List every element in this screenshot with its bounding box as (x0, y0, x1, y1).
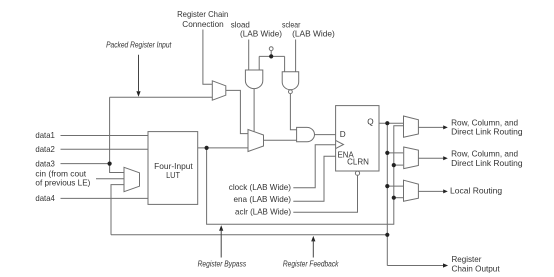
arrowhead mux3 output (443, 189, 448, 193)
arrow line register feedback (312, 240, 314, 258)
svg-text:cin (from cout: cin (from cout (35, 169, 86, 178)
four-input LUT box (148, 132, 198, 205)
wire mux3 output (418, 190, 443, 192)
arrowhead packed register input (136, 91, 140, 97)
node mux2 top junction (385, 151, 389, 155)
node data3 junction (108, 162, 112, 166)
svg-text:Register Chain: Register Chain (177, 10, 229, 19)
mux right 2 (404, 147, 419, 169)
mux right 1 (404, 116, 419, 137)
svg-text:sclear: sclear (282, 21, 301, 30)
wire data1 (61, 135, 149, 137)
svg-text:data1: data1 (35, 131, 55, 140)
nand gate sclear (282, 72, 299, 90)
arrow line packed register input (138, 55, 140, 92)
wire Q output (379, 122, 403, 124)
svg-text:CLRN: CLRN (347, 158, 369, 167)
node mux3 top junction (385, 184, 389, 188)
wire aclr (293, 175, 357, 212)
D flip-flop box (336, 106, 379, 171)
wire sclear label drop (295, 40, 297, 72)
wire node horizontal (259, 55, 284, 57)
svg-text:aclr (LAB Wide): aclr (LAB Wide) (235, 207, 291, 216)
wire sclear gate output (290, 94, 296, 130)
node open circle (269, 47, 273, 51)
svg-text:Four-Input: Four-Input (154, 162, 193, 171)
arrow line register bypass (220, 230, 222, 258)
svg-text:sload: sload (231, 21, 250, 30)
svg-text:Connection: Connection (182, 20, 224, 29)
wire data4 (61, 197, 149, 199)
node sload/sclear (269, 54, 273, 58)
wire sload gate output (253, 89, 255, 132)
wire mux1 output (418, 126, 443, 128)
svg-text:Row, Column, and: Row, Column, and (451, 118, 518, 127)
wire register feedback left vertical (111, 185, 124, 235)
mux M3 synchronous load (248, 130, 264, 152)
svg-text:D: D (340, 130, 346, 139)
arrowhead register chain output (443, 263, 448, 267)
wire node stub (270, 51, 272, 57)
mux M2 register chain connection (212, 81, 226, 100)
svg-text:data3: data3 (35, 159, 55, 168)
node Q line junction (385, 121, 389, 125)
svg-text:Register Bypass: Register Bypass (198, 259, 247, 268)
mux M1 cin/data3/feedback (124, 167, 140, 191)
arrowhead register feedback (311, 236, 315, 242)
wire node to sclear gate (284, 56, 286, 71)
svg-text:ena (LAB Wide): ena (LAB Wide) (234, 195, 292, 204)
svg-text:Register: Register (452, 255, 482, 264)
wire register bypass (207, 126, 404, 224)
svg-text:LUT: LUT (166, 171, 180, 180)
svg-text:(LAB Wide): (LAB Wide) (240, 30, 282, 39)
wire data2 (61, 148, 149, 150)
wire clock (293, 145, 335, 188)
wire mux2 bottom input (394, 164, 403, 166)
svg-text:Local Routing: Local Routing (450, 187, 503, 196)
svg-text:Direct Link Routing: Direct Link Routing (451, 159, 523, 168)
wire register chain mux output (226, 90, 248, 133)
wire mux3 top input (387, 185, 403, 187)
wire mux3 bottom input (394, 197, 403, 199)
svg-text:(LAB Wide): (LAB Wide) (292, 30, 335, 39)
svg-text:Register Feedback: Register Feedback (283, 259, 339, 268)
svg-text:data2: data2 (35, 145, 55, 154)
wire lut output (198, 147, 248, 149)
svg-text:Chain Output: Chain Output (452, 265, 501, 274)
node bypass mux3 junction (392, 196, 396, 200)
wire register feedback bottom horizontal (111, 234, 387, 236)
arrowhead register bypass (219, 225, 223, 231)
wire sload label drop (248, 40, 250, 71)
wire packed register input top horizontal (110, 96, 213, 98)
svg-text:Direct Link Routing: Direct Link Routing (451, 127, 523, 136)
clock triangle (336, 140, 344, 148)
wire data3 (61, 163, 110, 165)
wire Q vertical (386, 123, 388, 265)
wire sync mux output (264, 139, 297, 141)
svg-text:data4: data4 (35, 194, 55, 203)
CLRN bubble (355, 171, 359, 175)
svg-text:Packed Register Input: Packed Register Input (106, 40, 172, 49)
and gate before D (297, 127, 315, 141)
wire register chain output (387, 265, 443, 267)
nand gate sclear bubble (289, 90, 293, 94)
wire mux2 top input (387, 152, 403, 154)
wire and gate output to D (315, 134, 336, 136)
arrowhead mux2 output (443, 156, 448, 160)
node lut output junction (205, 146, 209, 150)
wire ena (293, 156, 335, 201)
wire node to sload gate (258, 56, 260, 70)
wire packed register input vertical (110, 97, 124, 172)
svg-text:clock (LAB Wide): clock (LAB Wide) (229, 183, 291, 192)
svg-text:of previous LE): of previous LE) (35, 179, 90, 188)
wire mux2 output (418, 157, 443, 159)
node bypass mux2 junction (392, 163, 396, 167)
arrowhead mux1 output (443, 125, 448, 129)
mux right 3 (404, 180, 419, 201)
wire cin (96, 178, 124, 180)
node feedback junction (385, 233, 389, 237)
wire register chain connection (203, 30, 212, 85)
svg-text:Q: Q (367, 118, 373, 127)
and gate sload (245, 70, 262, 89)
svg-text:Row, Column, and: Row, Column, and (451, 150, 518, 159)
